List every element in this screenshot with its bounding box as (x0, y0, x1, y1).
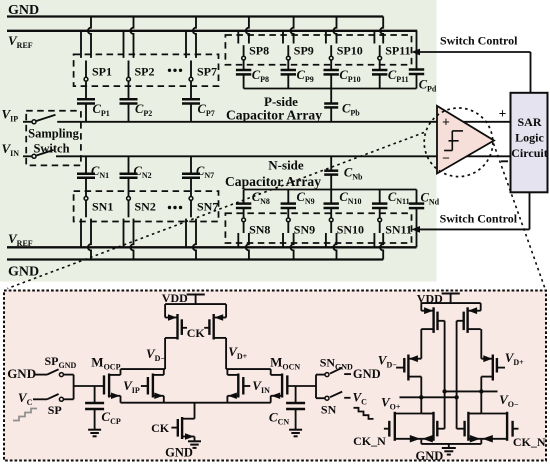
precharge PMOS right CK (225, 304, 227, 317)
MOCN gate wire to SN switches (287, 385, 316, 387)
capacitor CN11 (379, 190, 381, 204)
capacitor CP11 (372, 69, 387, 72)
cross-couple gate line right (456, 321, 458, 429)
svg-text:SN9: SN9 (294, 222, 315, 236)
capacitor CN1 (85, 156, 87, 174)
comparator - output label (501, 160, 508, 162)
svg-text:GND: GND (8, 3, 39, 18)
svg-text:−: − (442, 151, 450, 166)
latch NMOS left (421, 413, 433, 415)
svg-text:Switch: Switch (33, 142, 69, 156)
svg-text:GND: GND (165, 446, 193, 460)
capacitor CP8 (236, 69, 251, 72)
capacitor CP1 (77, 98, 95, 101)
svg-text:GND: GND (353, 367, 381, 381)
svg-text:P-side: P-side (264, 94, 298, 109)
sampling switch on VIP (32, 120, 36, 124)
N-side intermediate rail (244, 189, 417, 191)
svg-text:Capacitor Array: Capacitor Array (226, 108, 322, 123)
SP8-SP11 dashed box (225, 35, 411, 65)
capacitor CCN (295, 386, 297, 403)
svg-text:Sampling: Sampling (28, 127, 79, 141)
switch SP8 (237, 31, 239, 44)
capacitor CN2 (128, 156, 130, 174)
capacitor CN9 (287, 190, 289, 204)
switch SN1 (84, 197, 88, 201)
sampling switch on VIN (32, 154, 36, 158)
svg-text:SP10: SP10 (337, 43, 363, 57)
svg-text:SP: SP (48, 403, 62, 417)
switch SN2 (127, 197, 131, 201)
hysteresis symbol inside comparator (451, 131, 453, 151)
switch SP1 (80, 31, 82, 58)
comparator triangle U1 (437, 106, 494, 174)
svg-text:Circuit: Circuit (511, 146, 547, 160)
svg-text:SAR: SAR (517, 115, 541, 129)
switch SP10 (325, 31, 327, 44)
latch NMOS right (468, 413, 481, 415)
switch SP7 (185, 31, 187, 58)
magnifier dotted circle (424, 108, 493, 177)
ellipsis dots between SN2 and SN7 (168, 206, 171, 209)
VC ramp waveform icon black (354, 408, 374, 419)
callout dotted line right (494, 144, 546, 289)
svg-text:SN1: SN1 (92, 200, 113, 214)
switch SN10 (329, 218, 333, 222)
switch SN9 (286, 218, 290, 222)
svg-text:CK: CK (187, 326, 206, 340)
svg-text:GND: GND (8, 265, 39, 280)
cross-couple gate line left (444, 321, 446, 429)
capacitor CN7 (190, 156, 192, 174)
svg-text:N-side: N-side (268, 158, 304, 173)
svg-text:+: + (499, 106, 507, 121)
svg-text:+: + (442, 114, 450, 129)
svg-text:SN11: SN11 (385, 222, 412, 236)
GND top rail (7, 15, 383, 17)
switch SP11 (373, 31, 375, 44)
P-side intermediate rail (244, 88, 417, 90)
switch SP_GND (47, 369, 59, 374)
right output column segments (480, 329, 482, 359)
capacitor CN8 (243, 190, 245, 204)
svg-text:GND: GND (416, 449, 444, 463)
svg-text:SN8: SN8 (249, 222, 270, 236)
svg-text:CK_N: CK_N (513, 435, 546, 449)
left output column segments (420, 329, 422, 359)
switch SN11 (378, 218, 382, 222)
bottom source rail stage2 (420, 439, 422, 444)
bridge capacitor CPb (330, 89, 332, 104)
drain rail left (121, 368, 166, 370)
cross-coupled PMOS left (420, 303, 422, 311)
VREF top rail (7, 30, 417, 32)
switch SP2 (123, 31, 125, 58)
switch SN_GND (316, 374, 325, 376)
dummy capacitor CPd fed from VREF rail corner (416, 31, 418, 70)
GND rail corner down to SP11 with hop over VREF (380, 17, 383, 44)
GND bottom rail (7, 258, 383, 260)
capacitor CP2 (120, 98, 138, 101)
drain rail right (226, 368, 271, 370)
svg-text:SN10: SN10 (337, 222, 364, 236)
svg-text:SN2: SN2 (135, 200, 156, 214)
switch SP9 (282, 31, 284, 44)
VREF bottom rail (7, 246, 417, 248)
SN8-SN11 dashed box (225, 213, 411, 243)
svg-text:SP9: SP9 (294, 43, 314, 57)
switch SP (47, 394, 59, 399)
ground stage2 (448, 444, 450, 448)
SP switches common bar and wire to MOCP gate (73, 375, 75, 400)
ellipsis dots between SP2 and SP7 (168, 69, 171, 72)
cross-coupled PMOS right (480, 303, 482, 311)
switch SN8 (242, 218, 246, 222)
bridge capacitor CNb (330, 156, 332, 170)
svg-text:SN: SN (321, 403, 337, 417)
capacitor CN10 (330, 190, 332, 204)
pink comparator-detail panel (4, 291, 546, 461)
svg-text:GND: GND (7, 366, 36, 381)
precharge PMOS left CK (164, 304, 166, 317)
capacitor CP10 (324, 69, 339, 72)
svg-text:SP7: SP7 (197, 65, 217, 79)
switch SN (316, 397, 325, 399)
svg-text:SP11: SP11 (385, 43, 410, 57)
svg-text:CK: CK (151, 421, 170, 435)
ground tail (188, 440, 201, 442)
svg-text:SP2: SP2 (135, 65, 155, 79)
SN1-SN7 dashed box (74, 191, 219, 221)
SAR logic block U2 (511, 93, 548, 193)
svg-text:SP1: SP1 (92, 65, 112, 79)
capacitor CP9 (281, 69, 296, 72)
dummy capacitor CNd to VREF bottom rail corner (416, 190, 418, 204)
callout dotted line left (8, 133, 425, 289)
svg-text:SP8: SP8 (249, 43, 269, 57)
svg-text:Capacitor Array: Capacitor Array (225, 174, 321, 189)
Sampling Switch dashed box (26, 111, 81, 166)
svg-text:CK_N: CK_N (353, 434, 386, 448)
VC ramp waveform icon gray (13, 409, 37, 421)
green capacitor-array panel background (0, 0, 437, 282)
capacitor CP7 (182, 98, 200, 101)
common source rail stage1 (121, 402, 271, 404)
svg-text:Switch Control: Switch Control (440, 34, 518, 48)
SP1-SP7 dashed box (74, 54, 219, 86)
svg-text:Logic: Logic (515, 131, 544, 145)
svg-text:VDD: VDD (162, 291, 188, 305)
svg-text:Switch Control: Switch Control (440, 212, 518, 226)
GND bottom rail corner up to SN11 with hop over VREF (380, 233, 383, 260)
capacitor CCP (94, 386, 96, 403)
switch SN7 (189, 197, 193, 201)
